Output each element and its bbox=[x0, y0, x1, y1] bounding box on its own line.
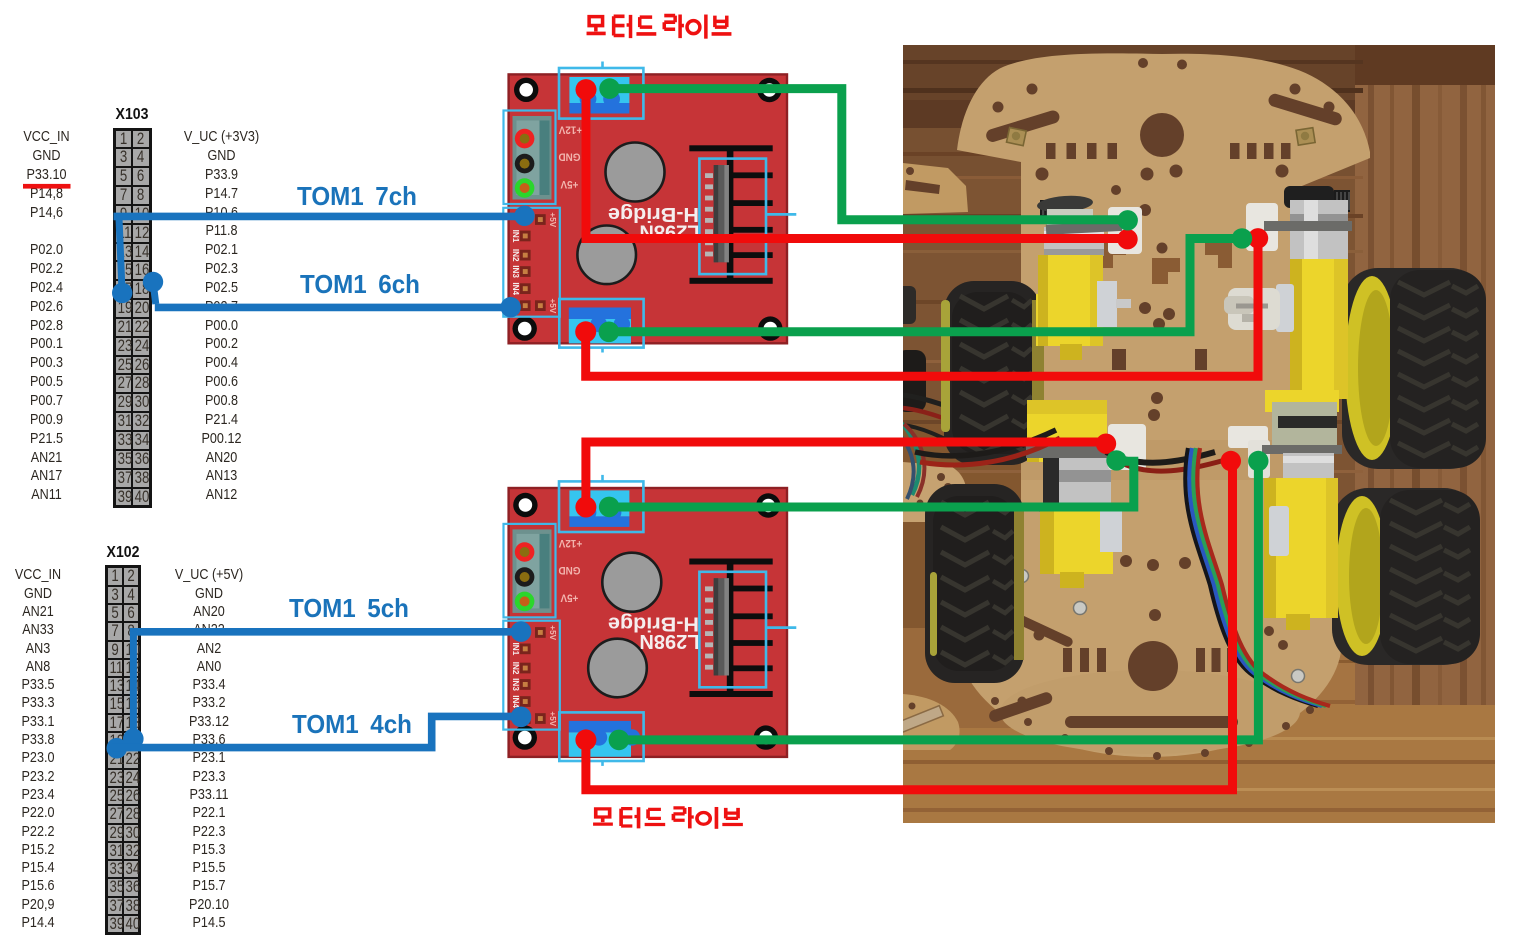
U2 control pin header (+5V IN1-IN4 +5V) bbox=[535, 627, 546, 638]
svg-text:+12V: +12V bbox=[559, 123, 582, 135]
node U1 terminal B- (green) bbox=[599, 322, 620, 343]
svg-text:IN4: IN4 bbox=[511, 695, 520, 708]
wire label TOM1 7ch bbox=[297, 181, 417, 212]
node TOM1 7ch at U1 +5V pin bbox=[514, 206, 534, 226]
label motor-drive (Korean) for U1 bbox=[587, 15, 732, 39]
svg-text:+5V: +5V bbox=[548, 212, 557, 227]
U1 IC (multiwatt package) bbox=[714, 165, 729, 262]
wire motor D - (green) U2 bottom terminal to rear-right motor bbox=[619, 462, 1259, 740]
photo: wheel front-left bbox=[944, 281, 1041, 465]
wire TOM1 7ch (blue) X103 pin row to U1 header bbox=[114, 213, 525, 221]
wire motor B - (green) U1 bottom terminal to front-right motor bbox=[609, 239, 1237, 332]
U2 motor output terminal (top) bbox=[569, 490, 629, 516]
motor driver board U2 (L298N H-Bridge) bbox=[23, 15, 1269, 829]
svg-text:+5V: +5V bbox=[548, 625, 557, 640]
U1 heatsink bbox=[689, 145, 772, 151]
wire motor C + (red) U2 top terminal to rear-left motor bbox=[586, 442, 1101, 507]
photo: mid plate cutouts bbox=[1099, 242, 1126, 268]
photo: wheel rear-left bbox=[925, 484, 1024, 683]
photo: rear-right motor bbox=[1228, 390, 1342, 630]
svg-text:GND: GND bbox=[558, 564, 580, 576]
wire label TOM1 5ch bbox=[289, 593, 409, 624]
wire TOM1 5ch (blue) X102 pin row to U2 header bbox=[130, 628, 521, 636]
motor driver board U1 (L298N H-Bridge) bbox=[23, 15, 1269, 829]
photo: hex bolt left bbox=[1007, 127, 1027, 145]
photo: chassis piece at lower left edge bbox=[903, 694, 960, 750]
connector X103 right signal labels bbox=[161, 128, 282, 505]
U1 power screw connector (+12V GND +5V) bbox=[513, 116, 552, 200]
wire label TOM1 4ch bbox=[292, 709, 412, 740]
node U2 terminal D- (green) bbox=[609, 730, 630, 751]
node TOM1 4ch at U2 +5V pin bbox=[511, 707, 532, 728]
node rear-right motor - (green) bbox=[1248, 451, 1268, 471]
photo: front plate holes and slots bbox=[993, 102, 1004, 113]
connector X102 pin-number grid bbox=[105, 565, 141, 935]
U2 capacitor C2 bbox=[588, 639, 647, 698]
wire TOM1 4ch (blue) X102 pin row to U2 header bbox=[112, 716, 521, 747]
node TOM1 4ch at X102 bbox=[107, 738, 128, 759]
photo: front-left motor bbox=[1036, 194, 1142, 360]
U2 capacitor C1 bbox=[602, 553, 661, 612]
label motor-drive (Korean) for U2 bbox=[593, 807, 743, 829]
connector X102 title bbox=[103, 544, 143, 562]
svg-text:IN2: IN2 bbox=[511, 249, 520, 262]
photo: motor hookup wires (red/black) bbox=[915, 430, 1056, 456]
svg-text:+5V: +5V bbox=[548, 299, 557, 314]
svg-text:GND: GND bbox=[558, 150, 580, 162]
photo: wheel front-right bbox=[1342, 268, 1486, 469]
wire motor A - (green) U1 top terminal to front-left motor bbox=[610, 89, 1122, 220]
U2 mounting holes bbox=[513, 493, 537, 517]
U1 motor output terminal (top) bbox=[569, 77, 629, 103]
node U1 terminal A+ (red) bbox=[576, 79, 597, 100]
wire motor C - (green) U2 top terminal to rear-left motor bbox=[609, 461, 1134, 507]
U1 IC outline box bbox=[699, 159, 766, 275]
node front-left motor - (green) bbox=[1118, 210, 1138, 230]
node front-right motor - (green) bbox=[1232, 228, 1252, 248]
U1 mounting holes bbox=[514, 78, 538, 102]
node rear-left motor + (red) bbox=[1096, 434, 1116, 454]
wire motor B + (red) U1 bottom terminal to front-right motor bbox=[586, 243, 1258, 376]
svg-text:IN4: IN4 bbox=[511, 282, 520, 295]
U1 PCB body bbox=[509, 74, 787, 343]
photo: loose wires at left edge bbox=[903, 395, 1008, 428]
photo: chassis mid plate bbox=[1021, 300, 1297, 630]
svg-text:IN3: IN3 bbox=[511, 265, 520, 278]
photo: rear deck holes and slots bbox=[1120, 555, 1132, 567]
svg-text:+12V: +12V bbox=[559, 537, 582, 549]
node TOM1 7ch at X103 (blue junction dot) bbox=[112, 283, 132, 303]
node TOM1 6ch at U1 +5V pin bbox=[501, 297, 521, 317]
svg-text:+5V: +5V bbox=[561, 591, 579, 603]
photo: wheel rear-right bbox=[1332, 488, 1480, 665]
node TOM1 5ch at U2 +5V pin bbox=[511, 621, 532, 642]
photo: partial chassis piece at left edge bbox=[903, 163, 968, 214]
U1 motor output terminal (bottom) bbox=[569, 308, 631, 320]
photo: hex bolt right bbox=[1296, 128, 1315, 145]
U2 PCB body bbox=[509, 488, 787, 757]
U2 heatsink bbox=[689, 559, 772, 565]
wire motor D + (red) U2 bottom terminal to rear-right motor bbox=[586, 462, 1233, 790]
connector X103 left signal labels bbox=[0, 128, 93, 505]
underline mark on P33.10 bbox=[23, 184, 71, 189]
svg-text:IN1: IN1 bbox=[511, 643, 520, 656]
node TOM1 6ch at X103 bbox=[143, 272, 163, 292]
svg-text:L298N: L298N bbox=[639, 630, 699, 652]
svg-text:IN2: IN2 bbox=[511, 662, 520, 675]
node rear-left motor - (green) bbox=[1106, 450, 1126, 470]
photo: ribbon cable bundle bbox=[1185, 448, 1318, 706]
node front-right motor + (red) bbox=[1248, 228, 1268, 248]
wire label TOM1 6ch bbox=[300, 269, 420, 300]
wire TOM1 6ch (blue) X103 pin row to U1 header bbox=[153, 282, 156, 304]
photo: chassis rear deck (oval) bbox=[958, 523, 1342, 757]
node TOM1 5ch at X102 bbox=[123, 729, 144, 750]
photo: second car deck piece at left edge bbox=[903, 462, 966, 522]
U2 IC outline box bbox=[699, 572, 766, 688]
node U2 terminal C+ (red) bbox=[575, 497, 596, 518]
connector X103 pin-number grid bbox=[113, 128, 152, 509]
node U1 terminal B+ (red) bbox=[575, 321, 596, 342]
svg-text:IN3: IN3 bbox=[511, 678, 520, 691]
U2 motor output terminal (bottom) bbox=[569, 721, 631, 733]
U1 control pin header (+5V IN1-IN4 +5V) bbox=[535, 214, 546, 225]
photo: rear-left motor bbox=[1026, 400, 1146, 588]
node U1 terminal A- (green) bbox=[599, 78, 620, 99]
photo: dark wheel of second car at left edge bbox=[897, 286, 916, 324]
svg-text:+5V: +5V bbox=[548, 711, 557, 726]
node front-left motor + (red) bbox=[1117, 229, 1137, 249]
node rear-right motor + (red) bbox=[1221, 451, 1241, 471]
U2 IC (multiwatt package) bbox=[714, 578, 729, 675]
connector X102 left signal labels bbox=[0, 566, 76, 932]
connector X103 title bbox=[112, 106, 152, 124]
connector X102 right signal labels bbox=[148, 566, 270, 932]
photo: wooden table background bbox=[903, 45, 1495, 823]
node U2 terminal C- (green) bbox=[599, 497, 620, 518]
svg-text:IN1: IN1 bbox=[511, 230, 520, 243]
photo: chassis top plate (front wing) bbox=[957, 53, 1370, 480]
node U2 terminal D+ (red) bbox=[575, 729, 596, 750]
U2 power screw connector (+12V GND +5V) bbox=[513, 529, 552, 613]
wire motor A + (red) U1 top terminal to front-left motor bbox=[586, 90, 1127, 239]
U1 capacitor C1 bbox=[606, 143, 665, 202]
svg-text:+5V: +5V bbox=[561, 178, 579, 190]
photo of 4WD robot car chassis bbox=[893, 45, 1495, 823]
photo: front-right motor bbox=[1224, 186, 1352, 399]
U1 capacitor C2 bbox=[577, 226, 636, 285]
